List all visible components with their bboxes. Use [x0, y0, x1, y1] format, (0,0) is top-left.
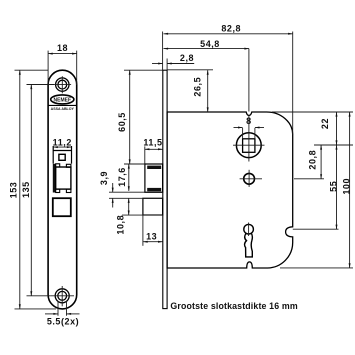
- latch bolt front: [53, 164, 71, 193]
- svg-text:Grootste slotkastdikte 16 mm: Grootste slotkastdikte 16 mm: [170, 301, 297, 311]
- svg-text:NEMEF: NEMEF: [54, 98, 72, 104]
- dim 11,2: [53, 138, 72, 148]
- faceplate divider line: [48, 104, 77, 106]
- dim 3,9: [99, 171, 162, 208]
- dim 82,8: [163, 24, 293, 135]
- bottom screw hole: [50, 286, 74, 306]
- deadbolt cutout front: [53, 198, 71, 216]
- svg-text:22: 22: [320, 118, 330, 129]
- dim 20,8: [294, 145, 324, 179]
- svg-text:13: 13: [146, 231, 157, 241]
- dim 100: [280, 112, 353, 268]
- svg-text:ASSA ABLOY: ASSA ABLOY: [51, 107, 75, 111]
- svg-text:2,8: 2,8: [180, 53, 194, 63]
- svg-text:54,8: 54,8: [200, 39, 220, 49]
- svg-text:18: 18: [57, 43, 68, 53]
- svg-text:11,5: 11,5: [143, 137, 162, 147]
- latch cutout front: [53, 146, 71, 164]
- dim 11,5 side: [143, 137, 162, 163]
- cylinder hole: [240, 170, 262, 187]
- top screw hole: [54, 76, 72, 93]
- NEMEF logo oval: [51, 95, 74, 104]
- svg-text:3,9: 3,9: [99, 171, 109, 185]
- dim 54,8: [164, 39, 250, 112]
- svg-text:10,8: 10,8: [116, 215, 126, 235]
- faceplate front view outline: [48, 70, 77, 309]
- dim 135: [21, 85, 54, 296]
- dim 8: [234, 116, 265, 139]
- dim 55: [293, 145, 339, 229]
- dim 22: [272, 112, 353, 145]
- svg-text:8: 8: [246, 116, 252, 126]
- dim 18: [48, 43, 77, 85]
- latch bolt side view: [145, 164, 163, 192]
- lock case outline: [167, 112, 293, 268]
- dim 13: [143, 231, 163, 241]
- dim 2,8: [152, 53, 194, 70]
- dim 10,8: [116, 198, 163, 234]
- dim 17,6: [117, 164, 129, 191]
- svg-text:135: 135: [21, 181, 31, 198]
- follower hole: [233, 115, 265, 162]
- svg-text:60,5: 60,5: [117, 112, 127, 132]
- keyhole: [244, 223, 254, 257]
- svg-text:26,5: 26,5: [192, 77, 202, 97]
- dim 5,5(2x): [45, 301, 80, 327]
- svg-text:11,2: 11,2: [53, 138, 72, 148]
- side faceplate strip: [163, 70, 167, 308]
- deadbolt side view: [143, 198, 163, 246]
- svg-text:5.5(2x): 5.5(2x): [47, 317, 79, 327]
- svg-text:20,8: 20,8: [307, 150, 317, 170]
- dim 26,5: [167, 70, 213, 112]
- dim 153: [9, 70, 56, 309]
- dim 60,5: [117, 70, 163, 164]
- svg-text:100: 100: [342, 178, 352, 195]
- svg-text:82,8: 82,8: [221, 24, 241, 34]
- svg-text:17,6: 17,6: [117, 167, 127, 187]
- svg-text:55: 55: [328, 181, 338, 192]
- follower pin square: [59, 154, 65, 160]
- svg-text:153: 153: [9, 182, 19, 199]
